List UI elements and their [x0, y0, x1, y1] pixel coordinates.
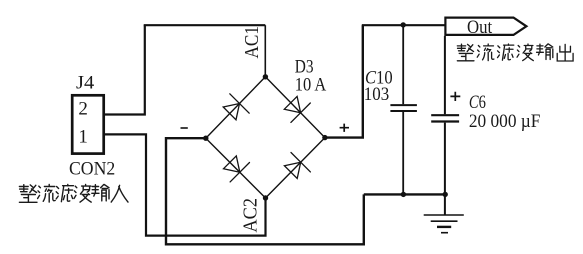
- svg-text:C6: C6: [469, 92, 486, 113]
- svg-text:103: 103: [364, 84, 389, 105]
- svg-text:20 000 µF: 20 000 µF: [469, 111, 541, 132]
- svg-text:Out: Out: [467, 17, 493, 38]
- svg-text:1: 1: [78, 127, 88, 148]
- svg-text:J4: J4: [76, 73, 95, 94]
- svg-text:CON2: CON2: [69, 158, 115, 179]
- svg-text:10 A: 10 A: [295, 75, 327, 96]
- svg-text:AC1: AC1: [241, 26, 263, 59]
- svg-text:AC2: AC2: [240, 198, 262, 233]
- svg-text:2: 2: [78, 98, 88, 119]
